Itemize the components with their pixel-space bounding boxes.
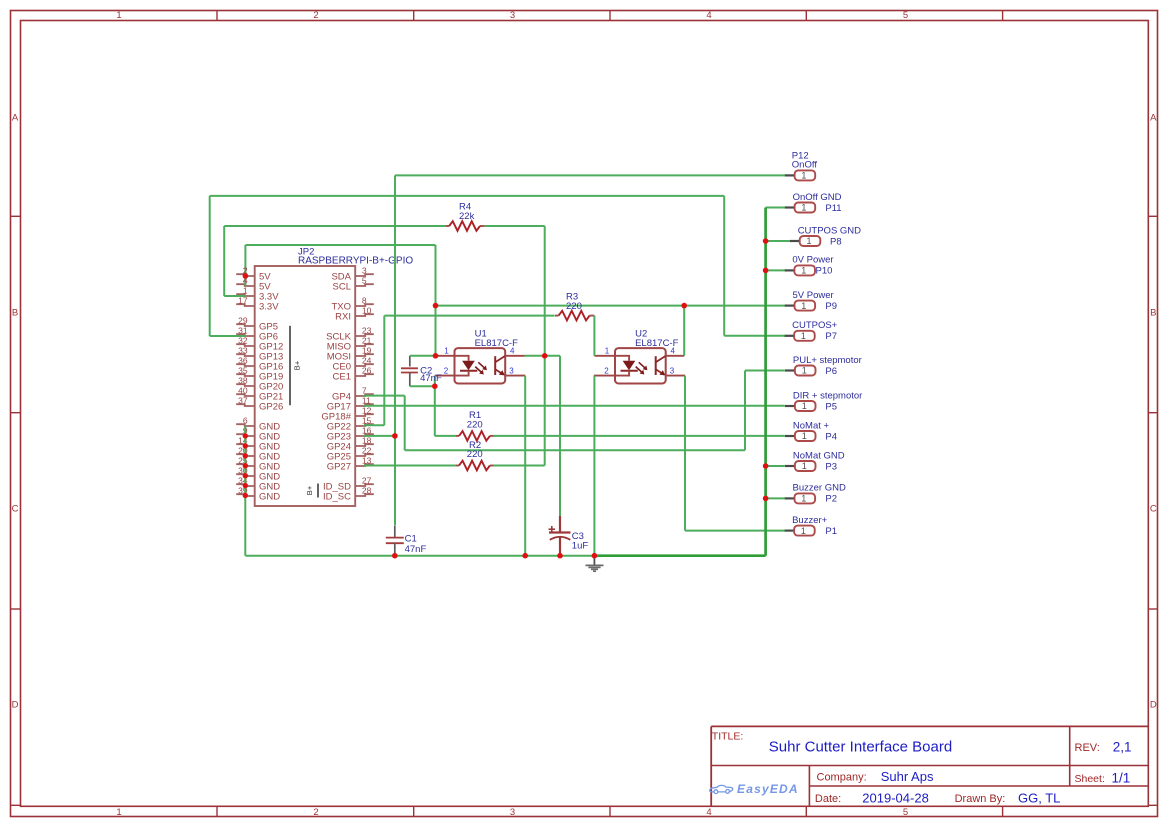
svg-text:GG, TL: GG, TL: [1018, 790, 1060, 805]
wire U2 pin4 drop: [683, 306, 685, 356]
svg-text:47nF: 47nF: [420, 373, 442, 384]
svg-text:P5: P5: [825, 401, 837, 412]
svg-text:26: 26: [362, 365, 372, 375]
wire U2 pin2 to ground rail: [593, 376, 595, 556]
wire 5V pin2 up: [244, 245, 246, 276]
svg-text:4: 4: [706, 807, 711, 818]
svg-text:EasyEDA: EasyEDA: [737, 782, 799, 796]
wire R4/R2 riser: [544, 226, 546, 466]
svg-text:10: 10: [362, 305, 372, 315]
JP2 pin 12 (GP18#) right: [355, 414, 374, 416]
wire R3 to U2 pin1: [593, 316, 595, 356]
junction GND pin at y=475.7: [243, 473, 248, 478]
JP2 pin 1 (3.3V) left: [236, 294, 255, 296]
capacitor C2 47nF: [409, 356, 411, 367]
JP2 pin 24 (CE0) right: [355, 364, 374, 366]
svg-text:31: 31: [238, 325, 248, 335]
svg-text:5: 5: [903, 10, 908, 21]
wire C2 top: [410, 355, 436, 357]
ground symbol: [593, 556, 595, 566]
U1 emitter with arrow: [495, 369, 503, 374]
svg-text:33: 33: [238, 345, 248, 355]
U1 phototransistor base bar: [494, 356, 496, 375]
svg-text:P6: P6: [825, 366, 837, 377]
wire R1 left: [435, 435, 456, 437]
wire R3 left horizontal: [384, 315, 554, 317]
wire GP4 stub: [364, 395, 405, 397]
U2 LED cathode bar: [621, 370, 638, 372]
svg-text:3: 3: [670, 366, 675, 375]
wire GP22 riser: [383, 316, 385, 426]
svg-text:GP27: GP27: [327, 461, 351, 472]
wire R4 right to riser: [485, 225, 545, 227]
wire P8 stub: [766, 240, 790, 242]
svg-text:2: 2: [313, 10, 318, 21]
JP2 pin 36 (GP16) left: [236, 364, 255, 366]
svg-text:5: 5: [903, 807, 908, 818]
svg-text:1: 1: [243, 285, 248, 295]
wire C3 riser: [559, 356, 561, 516]
wire GND bus riser: [764, 208, 767, 556]
JP2 pin 7 (GP4) right: [355, 394, 374, 396]
connector P10 (0V Power): [784, 269, 794, 271]
JP2 pin 39 (GND) left: [236, 494, 255, 496]
wire GP4 riser down: [404, 396, 406, 451]
svg-text:ID_SC: ID_SC: [323, 491, 351, 502]
svg-text:6: 6: [243, 415, 248, 425]
svg-text:1: 1: [801, 526, 806, 536]
svg-text:OnOff: OnOff: [792, 159, 818, 170]
JP2 pin 32 (GP12) left: [236, 344, 255, 346]
JP2 pin 3 (SDA) right: [355, 274, 374, 276]
junction at 544.7,355.8: [542, 353, 548, 359]
svg-text:GP26: GP26: [259, 401, 283, 412]
frame row ticks: [11, 215, 21, 217]
svg-text:DIR + stepmotor: DIR + stepmotor: [793, 390, 862, 401]
junction GND pin at y=465.7: [243, 463, 248, 468]
JP2 pin 16 (GP23) right: [355, 434, 374, 436]
svg-text:7: 7: [362, 385, 367, 395]
svg-text:P8: P8: [830, 236, 842, 247]
JP2 pin 33 (GP13) left: [236, 354, 255, 356]
svg-text:1: 1: [116, 807, 121, 818]
JP2 pin 27 (ID_SD) right: [355, 484, 374, 486]
svg-text:P1: P1: [825, 526, 837, 537]
connector P11 (OnOff GND): [785, 206, 795, 208]
connector P3 (NoMat GND): [785, 465, 795, 467]
wire PUL riser: [744, 371, 746, 451]
svg-text:1: 1: [802, 461, 807, 471]
JP2 pin 38 (GP20) left: [236, 384, 255, 386]
wire GP4 horizontal: [405, 449, 745, 451]
wire P10 stub: [766, 269, 785, 271]
title block logo cell divider: [808, 766, 810, 807]
op-amp U1 EL817C-F body: [455, 348, 506, 383]
svg-text:22k: 22k: [459, 211, 475, 222]
svg-text:220: 220: [566, 301, 582, 312]
svg-text:1/1: 1/1: [1112, 771, 1131, 786]
svg-text:D: D: [12, 699, 19, 710]
JP2 pin 30 (GND) left: [236, 474, 255, 476]
svg-text:19: 19: [362, 345, 372, 355]
wire ground rail left: [245, 555, 594, 557]
svg-text:C: C: [1150, 503, 1157, 514]
svg-text:Buzzer+: Buzzer+: [792, 515, 828, 526]
wire 5V top horizontal: [245, 244, 435, 246]
connector P5 (DIR + stepmotor): [785, 405, 795, 407]
svg-text:Sheet:: Sheet:: [1075, 773, 1105, 785]
U2 emitter with arrow: [656, 369, 664, 374]
svg-text:220: 220: [467, 420, 483, 431]
svg-text:A: A: [1150, 112, 1157, 123]
wire P3 stub: [766, 465, 785, 467]
JP2 pin 13 (GP27) right: [355, 464, 374, 466]
svg-text:2,1: 2,1: [1113, 739, 1132, 754]
svg-text:Company:: Company:: [817, 771, 867, 783]
svg-text:P2: P2: [825, 494, 837, 505]
svg-text:A: A: [12, 112, 19, 123]
svg-text:B: B: [1150, 307, 1156, 318]
svg-text:P9: P9: [825, 301, 837, 312]
svg-text:B+: B+: [305, 485, 314, 495]
svg-text:28: 28: [362, 485, 372, 495]
svg-text:REV:: REV:: [1075, 742, 1100, 754]
JP2 pin 19 (MOSI) right: [355, 354, 374, 356]
U2 pin 2 lead: [594, 371, 629, 376]
connector P8 (CUTPOS GND): [790, 240, 800, 242]
JP2 pin 20 (GND) left: [236, 454, 255, 456]
wire CUTPOS+ to P7: [724, 335, 785, 337]
junction at 394.9,435.9: [392, 433, 398, 439]
wire GP6 riser: [209, 196, 211, 336]
resistor R1: [455, 435, 459, 437]
JP2 pin 37 (GP26) left: [236, 404, 255, 406]
svg-text:OnOff GND: OnOff GND: [793, 192, 842, 203]
svg-text:SCL: SCL: [333, 281, 351, 292]
junction at 245.4,276.0: [243, 273, 249, 279]
JP2 pin 6 (GND) left: [236, 424, 255, 426]
capacitor C1 47nF: [394, 526, 396, 538]
svg-text:B+: B+: [293, 360, 302, 370]
svg-text:1: 1: [802, 431, 807, 441]
svg-text:B: B: [12, 307, 18, 318]
svg-text:RASPBERRYPI-B+-GPIO: RASPBERRYPI-B+-GPIO: [298, 256, 413, 267]
wire P11 to riser: [766, 207, 785, 209]
JP2 pin 35 (GP19) left: [236, 374, 255, 376]
svg-text:13: 13: [362, 455, 372, 465]
svg-text:220: 220: [467, 449, 483, 460]
svg-text:P4: P4: [825, 431, 837, 442]
capacitor C3 1uF polarized: [559, 516, 561, 532]
JP2 pin 11 (GP17) right: [355, 404, 374, 406]
resistor R4: [446, 225, 450, 227]
svg-text:CE1: CE1: [333, 371, 351, 382]
svg-text:1: 1: [802, 366, 807, 376]
svg-text:1: 1: [801, 301, 806, 311]
svg-text:P3: P3: [825, 461, 837, 472]
svg-text:1: 1: [605, 346, 610, 355]
junction at 594.4,555.7: [592, 553, 598, 559]
title block middle divider: [809, 785, 1148, 787]
svg-text:CUTPOS+: CUTPOS+: [792, 320, 838, 331]
wire GP22 stub: [364, 424, 384, 426]
svg-text:4: 4: [706, 10, 711, 21]
resistor R3: [555, 315, 559, 317]
svg-text:Buzzer GND: Buzzer GND: [793, 483, 846, 494]
svg-text:1: 1: [444, 346, 449, 355]
JP2 pin 22 (GP25) right: [355, 454, 374, 456]
wire C2 bottom: [410, 385, 435, 387]
wire ground rail: [594, 554, 765, 557]
C3 plus sign: [549, 528, 555, 530]
U2 LED triangle: [623, 361, 636, 371]
svg-text:1: 1: [801, 171, 806, 181]
U2 pin 1 lead: [594, 356, 629, 361]
svg-text:1: 1: [801, 494, 806, 504]
svg-text:P10: P10: [816, 266, 833, 277]
U1 LED triangle: [462, 361, 475, 371]
svg-text:1: 1: [801, 331, 806, 341]
JP2 pin 9 (GND) left: [236, 434, 255, 436]
svg-text:3: 3: [509, 366, 514, 375]
svg-text:40: 40: [238, 385, 248, 395]
svg-text:37: 37: [238, 395, 248, 405]
junction at 525.2,555.7: [522, 553, 528, 559]
wire U1 pin2 drop: [434, 376, 436, 387]
title block row divider 1: [711, 765, 1148, 767]
U1 emission arrows: [478, 362, 485, 368]
connector P4 (NoMat +): [785, 435, 795, 437]
svg-text:2019-04-28: 2019-04-28: [862, 790, 929, 805]
connector P9 (5V Power): [785, 305, 795, 307]
svg-text:EL817C-F: EL817C-F: [635, 338, 678, 349]
wire GP23 stub: [364, 435, 395, 437]
JP2 pin 18 (GP24) right: [355, 444, 374, 446]
title block outline: [711, 726, 1148, 806]
svg-text:TITLE:: TITLE:: [712, 731, 744, 743]
junction GND pin at y=445.9: [243, 443, 248, 448]
JP2 pin 34 (GND) left: [236, 484, 255, 486]
junction at 434.8,386.2: [432, 383, 438, 389]
connector JP2 RASPBERRYPI-B+-GPIO body: [255, 266, 356, 506]
wire GND pins vertical: [244, 426, 246, 556]
svg-text:35: 35: [238, 365, 248, 375]
junction at 765.6,466.0: [763, 463, 769, 469]
JP2 pin 10 (RXI) right: [355, 314, 374, 316]
wire P2 stub: [766, 497, 785, 499]
svg-text:3: 3: [510, 10, 515, 21]
wire R1 right to P4: [494, 435, 785, 437]
svg-text:1: 1: [116, 10, 121, 21]
svg-text:8: 8: [362, 295, 367, 305]
U1 pin 1 lead: [435, 356, 468, 361]
svg-text:3: 3: [362, 265, 367, 275]
wire GP17 to P5: [364, 405, 785, 407]
JP2 pin 23 (SCLK) right: [355, 334, 374, 336]
svg-text:D: D: [1150, 699, 1157, 710]
svg-text:1: 1: [806, 236, 811, 246]
svg-text:22: 22: [362, 445, 372, 455]
svg-text:PUL+ stepmotor: PUL+ stepmotor: [793, 355, 862, 366]
wire GP6 top horizontal: [210, 195, 725, 197]
svg-text:5V Power: 5V Power: [793, 290, 834, 301]
junction at 560.0,555.7: [557, 553, 563, 559]
junction at 765.6,241.0: [763, 238, 769, 244]
junction GND pin at y=485.6: [243, 483, 248, 488]
junction at 394.8,555.7: [392, 553, 398, 559]
JP2 pin 31 (GP6) left: [236, 334, 255, 336]
svg-text:GND: GND: [259, 491, 280, 502]
connector P7 (CUTPOS+): [784, 335, 794, 337]
U2 phototransistor base bar: [655, 356, 657, 375]
wire P12 OnOff net horizontal: [395, 174, 785, 176]
svg-text:EL817C-F: EL817C-F: [475, 338, 518, 349]
svg-text:Suhr Cutter Interface Board: Suhr Cutter Interface Board: [769, 739, 952, 756]
JP2 pin 17 (3.3V) left: [236, 304, 255, 306]
svg-text:16: 16: [362, 425, 372, 435]
wire R1 riser: [434, 386, 436, 436]
frame column ticks: [216, 11, 218, 21]
svg-text:Suhr Aps: Suhr Aps: [881, 769, 934, 784]
wire 3.3V pin1 stub: [224, 295, 246, 297]
junction at 765.6,498.4: [763, 496, 769, 502]
wire R2 right to riser: [494, 465, 545, 467]
svg-text:Date:: Date:: [815, 793, 841, 805]
svg-text:Drawn By:: Drawn By:: [955, 793, 1006, 805]
svg-text:36: 36: [238, 355, 248, 365]
connector P2 (Buzzer GND): [785, 497, 795, 499]
svg-text:3.3V: 3.3V: [259, 301, 279, 312]
U1 pin 3 lead: [505, 375, 525, 377]
JP2 pin 28 (ID_SC) right: [355, 494, 374, 496]
U1 pin 2 lead: [435, 371, 469, 376]
JP2 pin 5 (SCL) right: [355, 284, 374, 286]
connector P1 (Buzzer+): [784, 529, 794, 531]
resistor R2: [455, 465, 459, 467]
connector P6 (PUL+ stepmotor): [785, 369, 795, 371]
svg-text:1: 1: [801, 203, 806, 213]
svg-text:11: 11: [362, 395, 371, 405]
JP2 pin 40 (GP21) left: [236, 394, 255, 396]
svg-text:3: 3: [510, 807, 515, 818]
wire U1 anode riser: [435, 245, 437, 356]
svg-text:27: 27: [362, 475, 372, 485]
svg-text:RXI: RXI: [335, 311, 351, 322]
svg-text:2: 2: [243, 265, 248, 275]
U2 pin 3 lead: [666, 375, 686, 377]
connector P12 (OnOff): [785, 174, 795, 176]
svg-text:1: 1: [801, 266, 806, 276]
svg-text:15: 15: [362, 415, 372, 425]
U2 collector lead pin 4: [656, 356, 666, 362]
U1 collector lead pin 4: [495, 356, 505, 362]
svg-text:4: 4: [243, 275, 248, 285]
wire GP27 to R2: [364, 465, 455, 467]
svg-text:24: 24: [362, 355, 372, 365]
JP2 pin 14 (GND) left: [236, 444, 255, 446]
JP2 pin 8 (TXO) right: [355, 304, 374, 306]
wire GP6 to pin31: [210, 335, 246, 337]
svg-text:12: 12: [362, 405, 372, 415]
wire R4 left horizontal: [224, 225, 445, 227]
JP2 pin 15 (GP22) right: [355, 424, 374, 426]
svg-text:2: 2: [444, 366, 449, 375]
junction GND pin at y=495.5: [243, 493, 248, 498]
svg-text:C: C: [12, 503, 19, 514]
junction GND pin at y=455.8: [243, 453, 248, 458]
wire U2 pin3 drop: [684, 376, 686, 531]
svg-text:5: 5: [362, 275, 367, 285]
title block right column divider: [1069, 726, 1071, 786]
wire 5V pin2 to pin4: [244, 276, 246, 286]
JP2 B+ bus bar: [289, 326, 291, 405]
junction at 435.5,355.8: [433, 353, 439, 359]
svg-text:38: 38: [238, 375, 248, 385]
svg-text:1uF: 1uF: [572, 541, 589, 552]
wire PUL to P6: [745, 370, 785, 372]
junction at 435.5,305.6: [433, 303, 439, 309]
wire 5V Power horizontal to P9: [436, 305, 785, 307]
svg-text:2: 2: [313, 807, 318, 818]
svg-text:2: 2: [604, 366, 609, 375]
svg-text:P7: P7: [825, 331, 837, 342]
op-amp U2 EL817C-F body: [615, 348, 666, 383]
svg-text:P11: P11: [825, 203, 841, 214]
svg-text:1: 1: [802, 401, 807, 411]
JP2 B+ small bar (ID_SD/ID_SC): [317, 484, 319, 498]
EasyEDA logo: [710, 785, 733, 793]
svg-text:23: 23: [362, 325, 372, 335]
wire U1 pin4 horizontal: [525, 355, 561, 357]
U1 LED cathode bar: [460, 370, 477, 372]
svg-text:21: 21: [362, 335, 372, 345]
JP2 pin 29 (GP5) left: [236, 324, 255, 326]
JP2 pin 25 (GND) left: [236, 464, 255, 466]
JP2 pin 4 (5V) left: [236, 284, 255, 286]
junction at 684.2,305.6: [681, 303, 687, 309]
svg-text:NoMat GND: NoMat GND: [793, 450, 845, 461]
wire CUTPOS+ riser: [723, 196, 725, 336]
wire trunk OnOff/GP23/C1 vertical: [394, 175, 396, 525]
svg-text:C1: C1: [405, 534, 417, 545]
JP2 pin 21 (MISO) right: [355, 344, 374, 346]
wire Buzzer+ to P1: [685, 530, 785, 532]
svg-text:NoMat +: NoMat +: [793, 420, 830, 431]
junction at 765.6,270.4: [763, 268, 769, 274]
JP2 pin 2 (5V) left: [236, 274, 255, 276]
svg-text:47nF: 47nF: [405, 544, 427, 555]
svg-text:0V Power: 0V Power: [792, 255, 833, 266]
wire U1 pin3 drop to rail: [524, 376, 526, 556]
U2 emission arrows: [639, 362, 646, 368]
junction GND pin at y=435.9: [243, 433, 248, 438]
svg-text:CUTPOS GND: CUTPOS GND: [798, 225, 861, 236]
wire 3.3V riser: [223, 226, 225, 296]
JP2 pin 26 (CE1) right: [355, 374, 374, 376]
svg-text:29: 29: [238, 315, 248, 325]
